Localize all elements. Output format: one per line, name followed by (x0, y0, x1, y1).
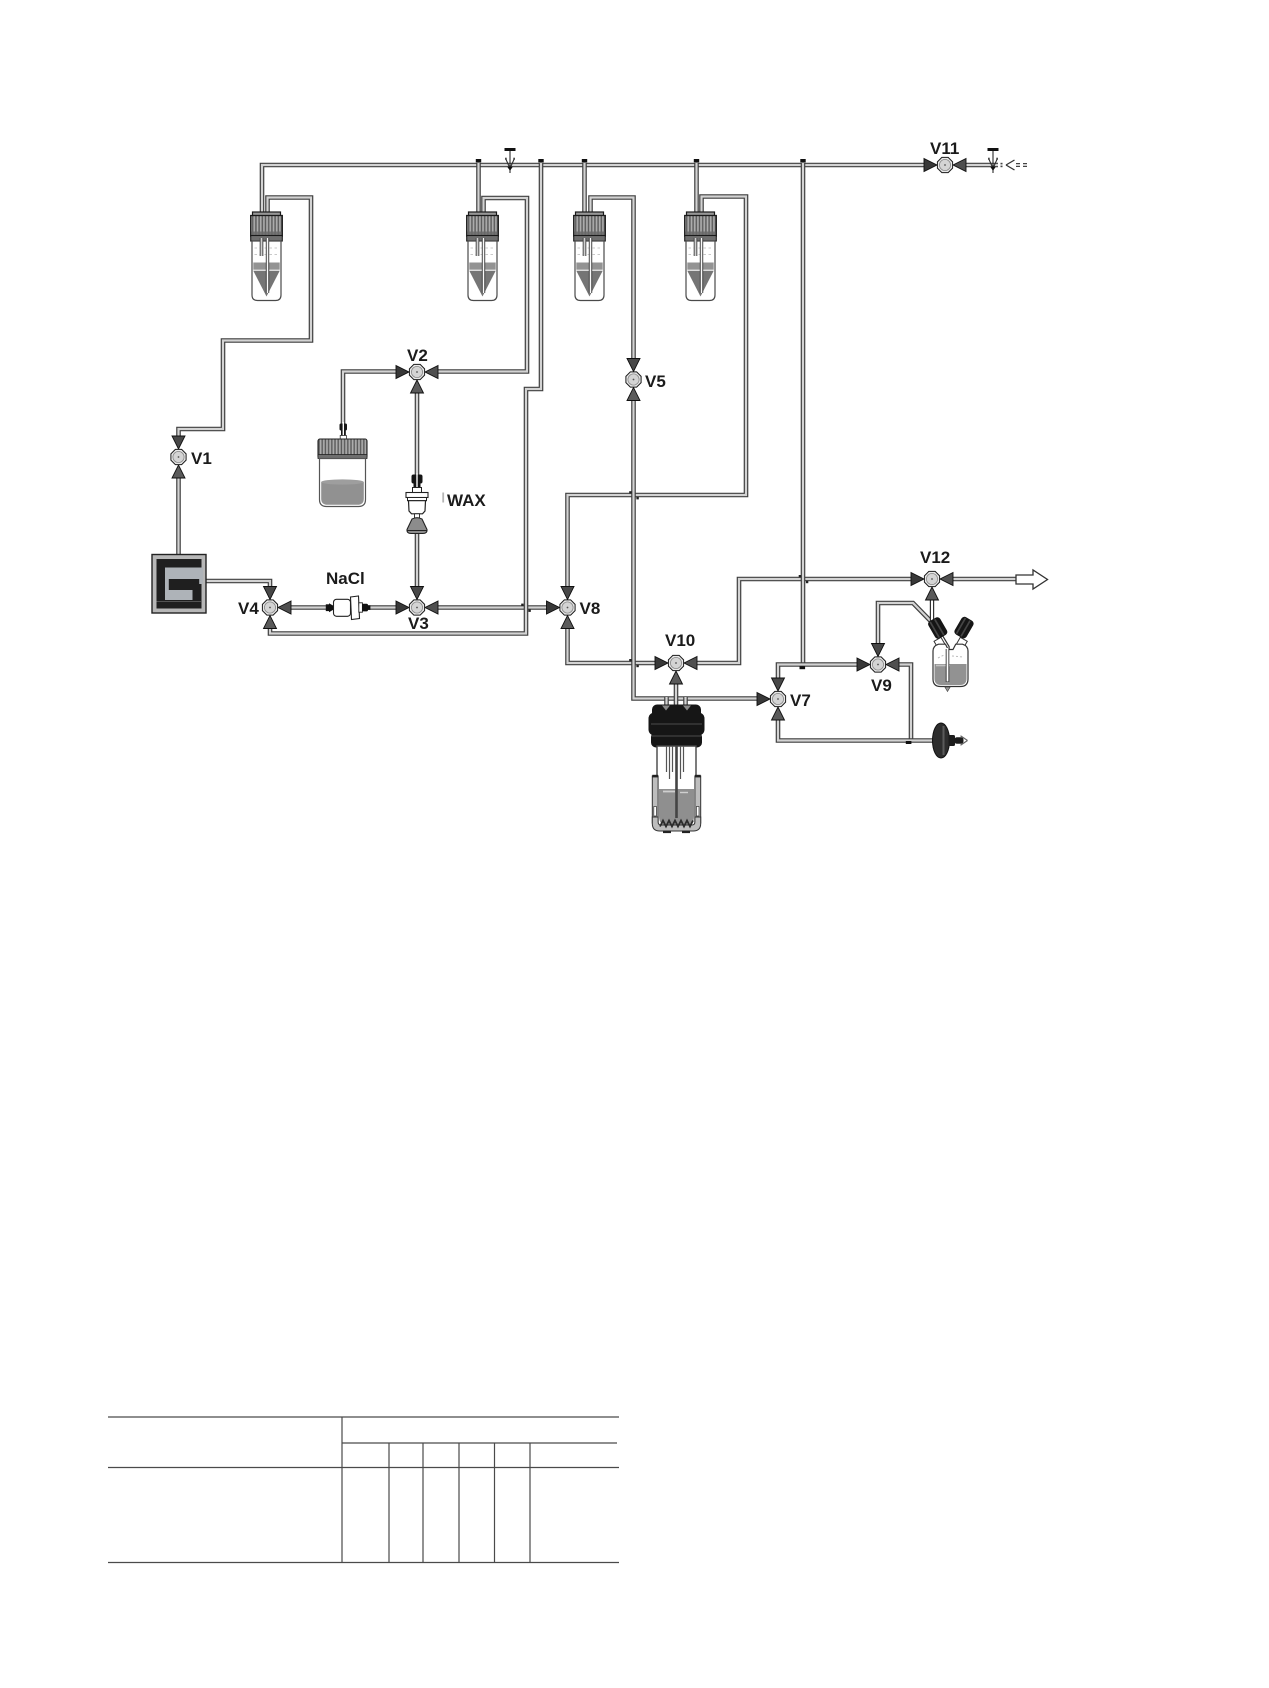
valve V2 (396, 364, 438, 393)
svg-text:NaCl: NaCl (326, 569, 365, 588)
wire valve V2 right to bottle B2 outlet (438, 198, 527, 372)
wire valve V9 right down to outlet filter line (899, 665, 911, 742)
NaCl filter cartridge (326, 596, 371, 620)
reagent bottle B4 (685, 212, 717, 301)
svg-text:V1: V1 (191, 449, 212, 468)
outlet filter flow arrow (961, 736, 968, 746)
svg-text:V3: V3 (408, 614, 429, 633)
wire reactor head right port stub (683, 697, 688, 707)
table column line 5 (529, 1443, 531, 1563)
wire manifold drop to bottle B2 (476, 163, 481, 224)
wire valve V10 right to valve V12 left (697, 579, 911, 663)
wire valve V7 top riser to valve V9 left (778, 665, 857, 679)
wire manifold to vent outlet (right of V11) (966, 163, 998, 168)
wire valve V2 bottom to WAX column (415, 393, 420, 476)
wire valve V1 to pump G (176, 478, 181, 556)
junction tick manifold/B3 (582, 159, 587, 162)
pump G (gas generator box) (152, 555, 206, 614)
reagent bottle B2 (467, 212, 499, 301)
wire manifold drop to bottle B3 (582, 163, 587, 224)
wire valve V3 to valve V8 (438, 605, 548, 610)
label WAX (442, 491, 486, 510)
junction tick at V7-V9 line and long drop (800, 666, 806, 669)
valve V7 (757, 678, 786, 720)
wire manifold long drop to V7/V9 line (801, 163, 806, 665)
valve V4 (262, 587, 291, 629)
wire valve V10 bottom to reactor center port (674, 684, 679, 708)
wire valve V4 to NaCl filter (291, 605, 327, 610)
table column line 2 (422, 1443, 424, 1563)
table outer horizontal lines (108, 1417, 619, 1563)
wire NaCl filter to valve V3 (368, 605, 396, 610)
svg-text:V7: V7 (790, 691, 811, 710)
junction tick manifold/B4 (694, 159, 699, 162)
svg-text:V5: V5 (645, 372, 666, 391)
wire valve V12 right to waste outlet arrow (953, 577, 1017, 582)
wire valve V8 bottom to valve V10 left (568, 629, 656, 664)
junction tick at filter line and V9 drop (906, 741, 912, 744)
table column line 1 (388, 1443, 390, 1563)
table column line 3 (458, 1443, 460, 1563)
vent symbol at gas inlet (right) (988, 148, 999, 173)
WAX column frit cone (407, 518, 427, 534)
junction tick manifold/B2 (476, 159, 481, 162)
valve V5 (626, 359, 641, 401)
svg-text:V9: V9 (871, 676, 892, 695)
wire bottle B4 outlet to valve V8 top (568, 197, 747, 587)
crossing marks at return loop over V3-V8 line (521, 604, 531, 612)
wire reactor head left port stub (664, 697, 669, 707)
reagent bottle B3 (574, 212, 606, 301)
svg-text:V2: V2 (407, 346, 428, 365)
outlet filter disc (933, 723, 964, 758)
dashed gas-inlet arrow (1001, 160, 1031, 170)
junction tick manifold/long drop (800, 159, 805, 162)
solvent jar connector (340, 422, 348, 440)
valve V9 (857, 644, 899, 673)
reactor glass vessel (657, 746, 696, 828)
wire bottle B3 outlet to valve V5 (591, 198, 634, 359)
wire manifold drop to bottle B4 (694, 163, 699, 224)
table column line 4 (494, 1443, 496, 1563)
wire WAX column to valve V3 top (415, 533, 420, 587)
table header sub-line (342, 1442, 617, 1444)
wire valve V12 bottom dip tube into waste bottle (932, 600, 948, 682)
WAX column body (406, 488, 428, 518)
wire pump G to valve V4 top (206, 581, 270, 588)
svg-text:V8: V8 (580, 599, 601, 618)
waste bottle left neck and cap (927, 616, 949, 640)
crossing marks at V5 drop over B4-V8 line (629, 491, 639, 499)
table vertical divider main (341, 1417, 343, 1563)
wire valve V9 top to waste bottle cap (878, 603, 934, 644)
wire valve V4 bottom return loop to manifold branch (270, 163, 541, 634)
svg-text:WAX: WAX (447, 491, 486, 510)
waste outlet open arrow (1016, 570, 1048, 589)
wire gas manifold with drop to bottle B1 (262, 165, 924, 224)
waste bottle internal dip tube (946, 648, 950, 682)
svg-text:V4: V4 (238, 599, 259, 618)
crossing marks at V5 drop over V8-V10 line (629, 659, 639, 667)
valve V1 (171, 436, 186, 478)
valve V8 (547, 587, 576, 629)
solvent jar (318, 439, 367, 507)
valve V10 (655, 655, 697, 684)
junction tick manifold/return loop (538, 159, 543, 162)
WAX column connector (412, 474, 423, 492)
svg-text:V12: V12 (920, 548, 950, 567)
wire valve V7 bottom to outlet filter (778, 720, 933, 741)
crossing marks at long drop over V10-V12 line (799, 575, 809, 583)
reactor head (black cap) (649, 705, 705, 748)
valve V3 (396, 587, 438, 616)
reactor stirrer shaft (675, 746, 678, 818)
svg-text:V10: V10 (665, 631, 695, 650)
valve V12 (911, 571, 953, 600)
wire bottle B1 outlet to valve V1 (179, 198, 312, 437)
wire valve V5 bottom down to reactor line and valve V7 left (634, 401, 758, 699)
vent symbol on manifold (505, 148, 516, 173)
reagent bottle B1 (251, 212, 283, 301)
wire solvent jar to valve V2 left (343, 372, 396, 426)
waste bottle right neck and cap (953, 616, 975, 640)
reactor jacket beaker (652, 775, 700, 833)
waste bottle (two-neck) (933, 637, 968, 691)
valve V11 (924, 157, 966, 172)
svg-text:V11: V11 (930, 139, 959, 158)
reactor liquid (659, 789, 694, 826)
